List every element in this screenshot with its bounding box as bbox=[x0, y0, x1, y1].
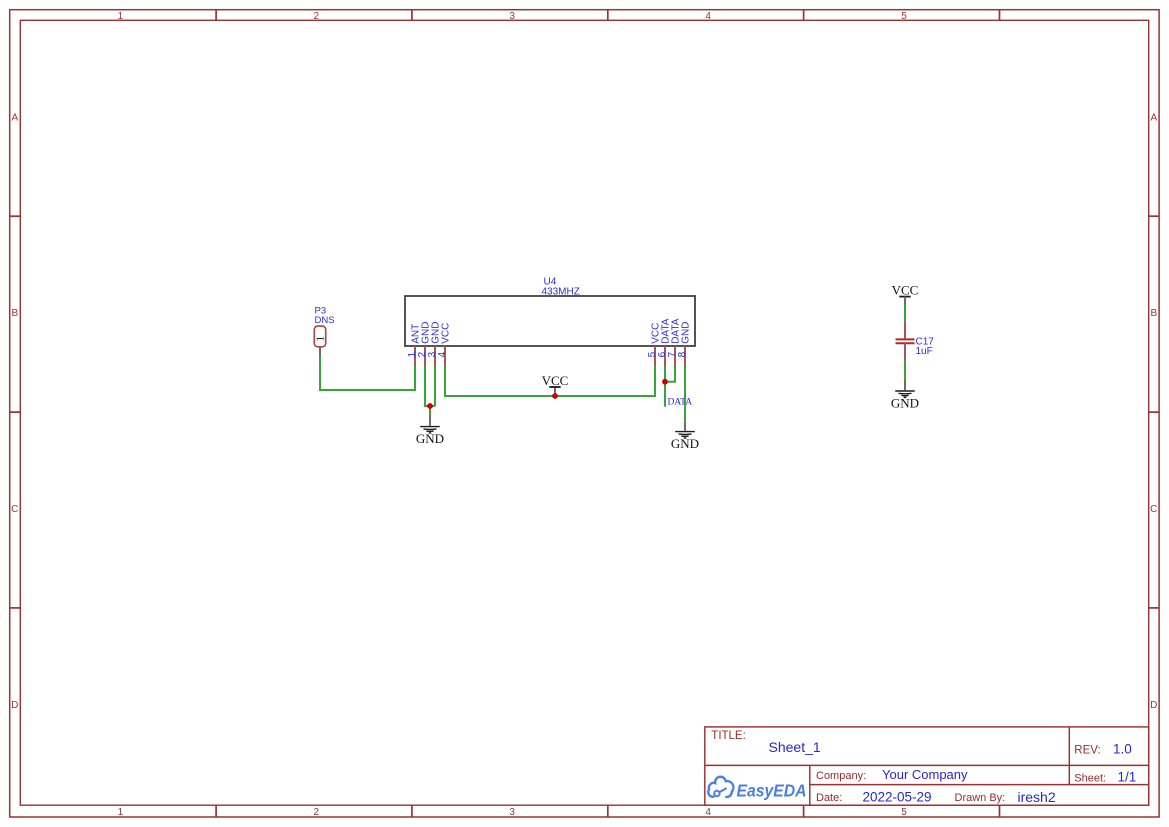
EasyEDA logo bbox=[708, 777, 733, 797]
U4 reference designator U4 / 433MHZ bbox=[542, 277, 580, 298]
svg-text:GND: GND bbox=[681, 322, 692, 344]
svg-text:REV:: REV: bbox=[1074, 744, 1100, 756]
junction dot (GND net) bbox=[427, 403, 433, 409]
svg-text:433MHZ: 433MHZ bbox=[542, 287, 580, 298]
connector P3 DNS bbox=[314, 306, 334, 357]
wire U4 pin2 to junction bbox=[425, 366, 435, 406]
capacitor C17 bbox=[896, 322, 915, 361]
wire P3 to U4 pin1 (ANT net) bbox=[320, 356, 415, 390]
svg-text:VCC: VCC bbox=[542, 373, 569, 388]
ground symbol GND (C17 branch) bbox=[891, 381, 919, 411]
svg-text:4: 4 bbox=[437, 351, 448, 357]
wire junction to ground bbox=[429, 406, 431, 417]
svg-text:1: 1 bbox=[315, 336, 327, 342]
svg-text:C: C bbox=[11, 504, 18, 515]
svg-text:4: 4 bbox=[705, 11, 711, 22]
power flag VCC (center) bbox=[542, 373, 569, 396]
svg-text:3: 3 bbox=[509, 11, 515, 22]
svg-text:2: 2 bbox=[314, 807, 320, 818]
svg-text:DATA: DATA bbox=[668, 398, 693, 408]
svg-text:VCC: VCC bbox=[892, 282, 919, 297]
svg-text:TITLE:: TITLE: bbox=[711, 730, 746, 742]
svg-text:iresh2: iresh2 bbox=[1018, 789, 1056, 805]
svg-text:5: 5 bbox=[901, 11, 907, 22]
svg-text:2: 2 bbox=[314, 11, 320, 22]
U4 pin 6 DATA bbox=[657, 318, 672, 366]
svg-text:D: D bbox=[11, 700, 18, 711]
svg-text:1: 1 bbox=[118, 807, 124, 818]
wire U4 pin6 to DATA net stub bbox=[664, 366, 666, 407]
U4 pin 2 GND bbox=[417, 322, 432, 366]
svg-text:1: 1 bbox=[118, 11, 124, 22]
IC U4 body bbox=[405, 296, 695, 346]
wire U4 pin7 to junction bbox=[665, 366, 675, 382]
junction dot (DATA net) bbox=[662, 379, 668, 385]
svg-text:1uF: 1uF bbox=[916, 346, 933, 357]
svg-text:1/1: 1/1 bbox=[1118, 769, 1137, 784]
wire C17 to ground bbox=[904, 361, 906, 381]
svg-text:Drawn By:: Drawn By: bbox=[955, 792, 1006, 804]
svg-text:A: A bbox=[11, 112, 18, 123]
wire U4 pin8 to ground bbox=[684, 366, 686, 422]
ground symbol GND (right) bbox=[671, 422, 699, 452]
svg-text:DNS: DNS bbox=[315, 315, 335, 326]
svg-text:1.0: 1.0 bbox=[1113, 741, 1132, 756]
U4 pin 3 GND bbox=[427, 322, 442, 366]
svg-text:EasyEDA: EasyEDA bbox=[737, 781, 807, 801]
U4 pin 4 VCC bbox=[437, 323, 452, 366]
U4 pin 1 ANT bbox=[407, 324, 422, 366]
svg-text:A: A bbox=[1150, 112, 1157, 123]
svg-text:B: B bbox=[1150, 308, 1157, 319]
svg-text:Company:: Company: bbox=[816, 770, 866, 782]
svg-text:8: 8 bbox=[677, 351, 688, 357]
svg-text:3: 3 bbox=[509, 807, 515, 818]
svg-text:D: D bbox=[1150, 700, 1157, 711]
U4 pin 8 GND bbox=[677, 322, 692, 366]
wire U4 pin3 to junction bbox=[434, 366, 436, 406]
svg-text:GND: GND bbox=[671, 436, 699, 451]
svg-text:VCC: VCC bbox=[441, 323, 452, 344]
svg-text:GND: GND bbox=[891, 396, 919, 411]
net label DATA bbox=[668, 398, 693, 408]
svg-text:4: 4 bbox=[705, 807, 711, 818]
U4 pin 7 DATA bbox=[667, 318, 682, 366]
wire U4 pin4 to pin5 (VCC net) bbox=[445, 366, 655, 396]
svg-text:B: B bbox=[11, 308, 18, 319]
power flag VCC (C17 branch) bbox=[892, 282, 919, 306]
ground symbol GND (left) bbox=[416, 417, 444, 447]
svg-text:Sheet:: Sheet: bbox=[1074, 772, 1106, 784]
U4 pin 5 VCC bbox=[647, 323, 662, 366]
svg-text:GND: GND bbox=[416, 431, 444, 446]
TITLE BLOCK bbox=[705, 727, 1149, 805]
svg-text:Sheet_1: Sheet_1 bbox=[769, 739, 821, 755]
junction dot (VCC net) bbox=[552, 393, 558, 399]
wire VCC to C17 bbox=[904, 306, 906, 322]
svg-text:5: 5 bbox=[901, 807, 907, 818]
svg-text:C: C bbox=[1150, 504, 1157, 515]
svg-text:Your Company: Your Company bbox=[882, 767, 968, 782]
svg-text:Date:: Date: bbox=[816, 792, 842, 804]
C17 value labels C17 / 1uF bbox=[916, 337, 935, 357]
svg-text:2022-05-29: 2022-05-29 bbox=[863, 790, 932, 805]
